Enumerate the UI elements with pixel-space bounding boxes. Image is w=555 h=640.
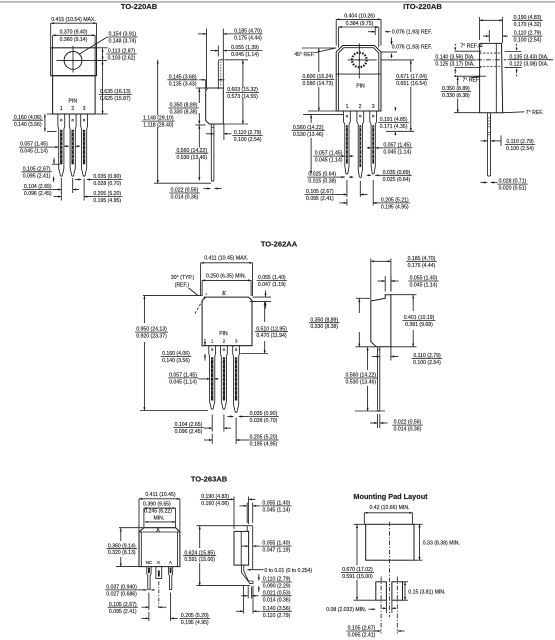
svg-text:0.110 (2.79): 0.110 (2.79) (263, 613, 291, 619)
svg-text:0.42 (10.66) MIN.: 0.42 (10.66) MIN. (369, 505, 409, 511)
svg-text:0.330 (8.38): 0.330 (8.38) (310, 324, 338, 330)
svg-text:0.014 (0.36): 0.014 (0.36) (394, 427, 422, 433)
svg-text:0.470 (11.94): 0.470 (11.94) (256, 333, 286, 339)
svg-text:30° (TYP.): 30° (TYP.) (171, 275, 195, 281)
svg-text:0.175 (4.44): 0.175 (4.44) (408, 263, 436, 269)
svg-text:1.118 (28.40): 1.118 (28.40) (143, 123, 173, 129)
svg-text:1: 1 (211, 339, 214, 344)
svg-text:7° REF.: 7° REF. (460, 43, 477, 49)
svg-text:0.025 (0.64): 0.025 (0.64) (383, 177, 411, 183)
svg-text:0.095 (2.41): 0.095 (2.41) (23, 173, 51, 179)
svg-text:0.591 (15.00): 0.591 (15.00) (184, 557, 215, 563)
svg-text:2: 2 (359, 104, 362, 110)
svg-text:0.330 (8.38): 0.330 (8.38) (442, 93, 470, 99)
svg-text:MIN.: MIN. (153, 515, 164, 521)
svg-text:0.415 (10.54) MAX.: 0.415 (10.54) MAX. (51, 17, 96, 23)
svg-text:0.047 (1.19): 0.047 (1.19) (262, 548, 290, 554)
svg-text:0.135 (3.43): 0.135 (3.43) (169, 81, 197, 87)
svg-text:0.591 (15.00): 0.591 (15.00) (342, 574, 373, 580)
svg-text:0.090 (2.29): 0.090 (2.29) (263, 584, 291, 590)
svg-text:0.625 (15.87): 0.625 (15.87) (100, 96, 131, 102)
svg-text:2: 2 (71, 106, 74, 112)
svg-text:0.027 (0.686): 0.027 (0.686) (106, 591, 137, 597)
svg-text:0.411 (10.45): 0.411 (10.45) (145, 492, 175, 498)
svg-text:0.140 (3.56): 0.140 (3.56) (162, 358, 190, 364)
svg-text:0.15 (3.81) MIN.: 0.15 (3.81) MIN. (408, 590, 445, 596)
svg-text:0.100 (2.54): 0.100 (2.54) (413, 360, 441, 366)
svg-text:0.095 (2.41): 0.095 (2.41) (109, 609, 137, 615)
svg-text:0.330 (8.38): 0.330 (8.38) (170, 110, 198, 116)
svg-text:0.095 (2.41): 0.095 (2.41) (348, 633, 376, 639)
svg-text:TO-263AB: TO-263AB (191, 474, 228, 483)
svg-text:0.08 (2.032) MIN.: 0.08 (2.032) MIN. (326, 607, 366, 613)
svg-text:0.195 (4.95): 0.195 (4.95) (181, 620, 209, 626)
svg-text:0.015 (0.38): 0.015 (0.38) (308, 179, 336, 185)
svg-text:7° REF.: 7° REF. (526, 110, 543, 116)
svg-text:PIN: PIN (219, 331, 228, 337)
svg-text:0.404 (10.26): 0.404 (10.26) (344, 13, 375, 19)
svg-text:0.171 (4.35): 0.171 (4.35) (380, 124, 408, 130)
svg-text:0.250 (6.35) MIN.: 0.250 (6.35) MIN. (206, 274, 246, 280)
svg-text:0.140 (3.56): 0.140 (3.56) (14, 122, 42, 128)
svg-text:0.020 (0.51): 0.020 (0.51) (499, 186, 527, 192)
svg-text:0.160 (4.06): 0.160 (4.06) (201, 501, 229, 507)
svg-text:0.045 (1.14): 0.045 (1.14) (383, 150, 411, 156)
svg-text:0.381 (9.68): 0.381 (9.68) (405, 322, 433, 328)
svg-text:0.045 (1.14): 0.045 (1.14) (169, 379, 197, 385)
svg-text:0.384 (9.75): 0.384 (9.75) (346, 21, 374, 27)
svg-text:7° REF.: 7° REF. (462, 78, 479, 84)
svg-text:0 to 0.01 (0 to 0.254): 0 to 0.01 (0 to 0.254) (264, 568, 312, 574)
svg-text:1: 1 (346, 104, 349, 110)
svg-text:0.045 (1.14): 0.045 (1.14) (410, 283, 438, 289)
svg-text:PIN: PIN (69, 99, 78, 105)
svg-text:0.028 (0.70): 0.028 (0.70) (93, 181, 121, 187)
svg-text:3: 3 (372, 104, 375, 110)
svg-text:0.045 (1.14): 0.045 (1.14) (262, 507, 290, 513)
svg-text:0.370 (9.40): 0.370 (9.40) (60, 29, 88, 35)
svg-text:0.100 (2.54): 0.100 (2.54) (506, 146, 534, 152)
svg-text:0.580 (14.73): 0.580 (14.73) (303, 81, 334, 87)
svg-text:0.148 (3.74): 0.148 (3.74) (109, 39, 137, 45)
svg-text:0.125 (3.17) DIA.: 0.125 (3.17) DIA. (435, 62, 474, 68)
svg-text:0.028 (0.70): 0.028 (0.70) (250, 418, 278, 424)
svg-text:3: 3 (83, 106, 86, 112)
svg-text:0.100 (2.54): 0.100 (2.54) (514, 38, 542, 44)
svg-text:ITO-220AB: ITO-220AB (403, 2, 442, 11)
svg-text:Mounting Pad Layout: Mounting Pad Layout (353, 492, 428, 501)
svg-text:0.170 (4.32): 0.170 (4.32) (514, 22, 542, 28)
svg-text:45° REF.: 45° REF. (294, 52, 314, 58)
svg-text:1: 1 (60, 106, 63, 112)
svg-text:PIN: PIN (356, 84, 365, 90)
svg-text:0.920 (23.37): 0.920 (23.37) (136, 334, 167, 340)
svg-text:0.096 (2.45): 0.096 (2.45) (175, 429, 203, 435)
svg-text:0.245 (6.22): 0.245 (6.22) (144, 509, 172, 515)
svg-text:0.014 (0.36): 0.014 (0.36) (171, 195, 199, 201)
svg-text:0.045 (1.14): 0.045 (1.14) (315, 158, 343, 164)
svg-text:0.651 (16.54): 0.651 (16.54) (396, 81, 427, 87)
svg-text:(REF.): (REF.) (175, 282, 190, 288)
svg-text:0.047 (1.19): 0.047 (1.19) (258, 282, 286, 288)
svg-text:2: 2 (223, 339, 226, 344)
svg-text:0.530 (13.46): 0.530 (13.46) (346, 380, 377, 386)
svg-text:0.014 (0.36): 0.014 (0.36) (263, 597, 291, 603)
svg-text:0.390 (9.65): 0.390 (9.65) (143, 501, 171, 507)
svg-text:0.045 (1.14): 0.045 (1.14) (20, 149, 48, 155)
svg-text:0.360 (9.14): 0.360 (9.14) (60, 37, 88, 43)
svg-text:0.100 (2.54): 0.100 (2.54) (234, 137, 262, 143)
svg-text:0.175 (4.44): 0.175 (4.44) (234, 35, 262, 41)
svg-text:0.33 (8.38) MIN.: 0.33 (8.38) MIN. (423, 540, 460, 546)
svg-text:0.076 (1.93) REF.: 0.076 (1.93) REF. (392, 30, 432, 36)
svg-text:0.096 (2.45): 0.096 (2.45) (24, 191, 52, 197)
svg-text:0.122 (3.08) DIA.: 0.122 (3.08) DIA. (509, 61, 548, 67)
svg-text:0.411 (10.45) MAX.: 0.411 (10.45) MAX. (204, 256, 248, 262)
svg-text:0.045 (1.14): 0.045 (1.14) (231, 52, 259, 58)
svg-text:0.195 (4.95): 0.195 (4.95) (381, 205, 409, 211)
svg-text:0.195 (4.95): 0.195 (4.95) (250, 442, 278, 448)
svg-text:0.103 (2.62): 0.103 (2.62) (108, 56, 136, 62)
svg-text:3: 3 (235, 339, 238, 344)
svg-text:NC: NC (146, 560, 153, 565)
svg-text:0.320 (8.13): 0.320 (8.13) (108, 550, 136, 556)
svg-text:0.530 (13.46): 0.530 (13.46) (293, 132, 324, 138)
svg-text:TO-262AA: TO-262AA (261, 240, 298, 249)
svg-text:0.530 (13.46): 0.530 (13.46) (177, 155, 208, 161)
svg-text:0.095 (2.41): 0.095 (2.41) (306, 196, 334, 202)
svg-text:0.076 (1.93) REF.: 0.076 (1.93) REF. (392, 45, 432, 51)
svg-text:0.195 (4.95): 0.195 (4.95) (93, 198, 121, 204)
svg-text:TO-220AB: TO-220AB (121, 2, 158, 11)
